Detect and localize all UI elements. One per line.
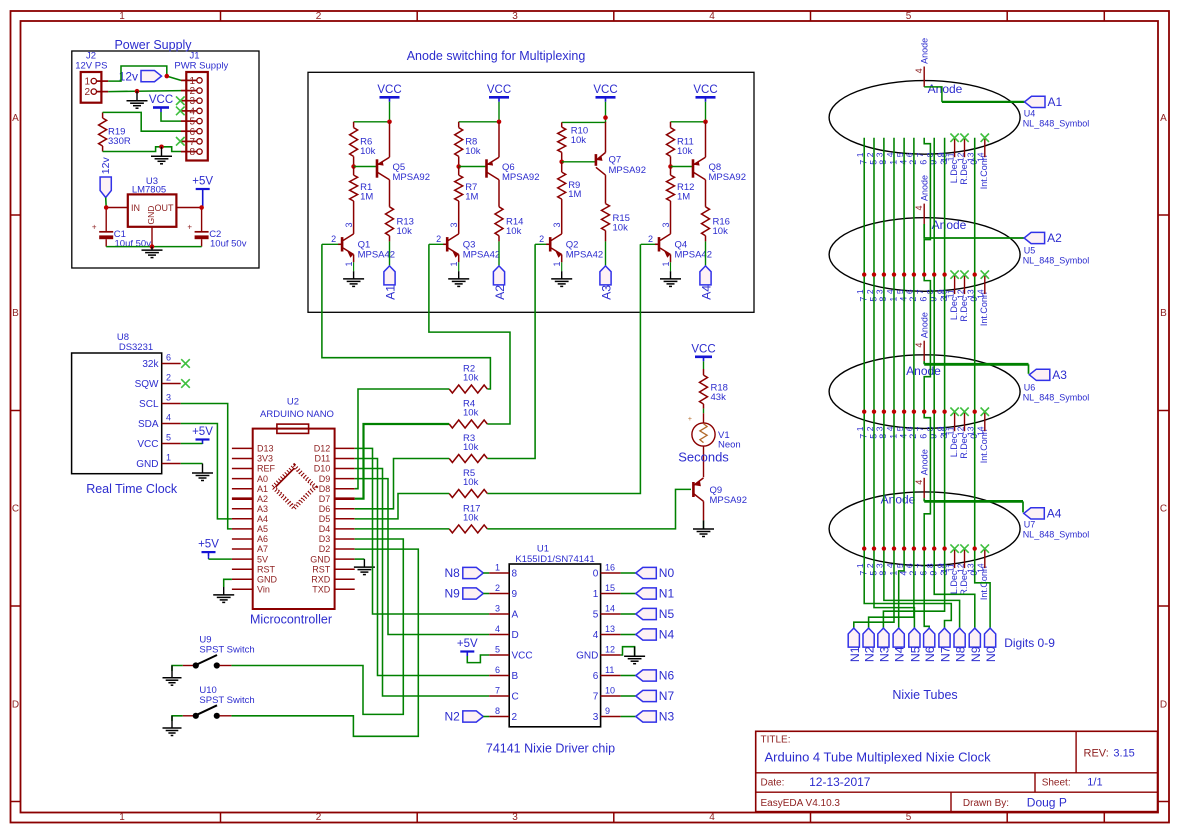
wire digit net col2 to N5 (874, 138, 914, 628)
resistor R11 10k (667, 122, 694, 167)
svg-text:A2: A2 (493, 285, 507, 300)
svg-text:A4: A4 (257, 514, 268, 524)
svg-text:1: 1 (119, 11, 125, 22)
no-connect pins of U7 (L.Dec R.Dec Int.Conn) (950, 544, 989, 568)
svg-text:PWR Supply: PWR Supply (174, 61, 228, 72)
svg-text:N1: N1 (659, 587, 675, 601)
svg-text:D13: D13 (257, 444, 274, 454)
svg-text:5: 5 (906, 11, 912, 22)
svg-text:R.Dec: R.Dec (959, 296, 969, 322)
svg-text:7: 7 (915, 289, 925, 294)
svg-text:Power Supply: Power Supply (114, 38, 192, 52)
svg-text:N2: N2 (863, 646, 877, 662)
svg-text:IN: IN (131, 203, 140, 213)
svg-text:C: C (1160, 504, 1167, 515)
svg-text:VCC: VCC (377, 84, 401, 96)
wire J2 pin1 to J1 pin1 (108, 66, 181, 81)
wire R18 to neon V1 (703, 409, 705, 414)
wire D11 to 74141 B (355, 459, 490, 676)
ground (Q3 emitter) (448, 271, 469, 286)
wire D8 to R2 (355, 389, 450, 489)
svg-text:2: 2 (539, 234, 544, 244)
resistor R19 330R (99, 112, 131, 151)
wire Arduino left GND to ground (224, 579, 232, 587)
svg-text:D6: D6 (319, 504, 331, 514)
svg-text:MPSA42: MPSA42 (566, 250, 604, 261)
svg-text:RXD: RXD (311, 574, 331, 584)
svg-text:0: 0 (593, 569, 599, 580)
nixie tube U4 NL_848_Symbol (ellipse) (829, 81, 1020, 155)
anode pin of U4 (914, 38, 930, 87)
resistor R-lower 1M (Q2) (558, 162, 582, 234)
svg-text:2: 2 (316, 812, 322, 823)
net flag N9 (74141 pin2) (444, 587, 489, 601)
svg-text:NL_848_Symbol: NL_848_Symbol (1023, 118, 1090, 128)
resistor R10 10k (558, 122, 588, 161)
wire Q1 base to R2 (322, 244, 491, 389)
svg-text:10k: 10k (571, 135, 587, 146)
wire digit net col6 to N2 (869, 138, 914, 628)
connector J2 12V PS (75, 51, 108, 103)
svg-text:A3: A3 (257, 504, 268, 514)
wire anode of U4 to A1 flag (924, 87, 1024, 102)
ground rail under regulator (106, 246, 201, 248)
power symbol VCC (A4 column) (693, 84, 717, 102)
svg-text:A2: A2 (257, 494, 268, 504)
svg-text:330R: 330R (108, 136, 131, 147)
net flag N0 (digit) (984, 628, 998, 662)
svg-text:13: 13 (605, 624, 615, 634)
resistor R-lower 1M (Q1) (350, 167, 374, 234)
svg-text:6: 6 (166, 353, 171, 363)
resistor R17 10k (449, 503, 487, 533)
wire D6 to R3 (355, 459, 450, 509)
junction VCC node A1 column (387, 120, 392, 125)
svg-text:NL_848_Symbol: NL_848_Symbol (1023, 393, 1090, 403)
svg-text:MPSA92: MPSA92 (609, 165, 647, 176)
transistor Q9 MPSA92 (PNP) (693, 478, 747, 521)
net flag A3 (anode column) (600, 266, 614, 300)
junction at 12v flag (165, 74, 170, 79)
ground (U8 GND) (192, 464, 213, 481)
svg-text:6: 6 (593, 671, 599, 682)
junction dots on tube U6 pins (862, 410, 977, 414)
svg-text:+5V: +5V (457, 638, 478, 650)
ground (74141 GND) (624, 647, 645, 664)
svg-text:4: 4 (166, 413, 171, 423)
net flag N7 (digit) (939, 628, 953, 662)
svg-text:12-13-2017: 12-13-2017 (809, 775, 871, 789)
svg-text:16: 16 (605, 563, 615, 573)
svg-text:1: 1 (449, 261, 459, 266)
svg-text:ARDUINO NANO: ARDUINO NANO (260, 409, 334, 420)
svg-text:Digits 0-9: Digits 0-9 (1004, 636, 1055, 650)
wire D7 to R4 (bold) (355, 424, 450, 499)
wire digit net col7 (with anode-pin jogs) to N6 (924, 138, 930, 628)
net flag N9 (digit) (969, 628, 983, 662)
svg-text:2: 2 (495, 583, 500, 593)
resistor R13 10k (386, 207, 414, 242)
svg-text:R.Dec: R.Dec (959, 159, 969, 185)
svg-text:A4: A4 (1047, 507, 1062, 521)
svg-text:10k: 10k (506, 226, 522, 237)
wire Q2 emitter to ground (561, 262, 563, 271)
power symbol +5V (U8 VCC) (192, 426, 213, 444)
svg-text:2: 2 (316, 11, 322, 22)
label Seconds (678, 450, 729, 465)
wire VCC to Q5 emitter (354, 102, 390, 122)
svg-text:N5: N5 (659, 607, 675, 621)
junction dots on tube U5 pins (862, 272, 977, 276)
svg-text:3: 3 (512, 812, 518, 823)
wire +5V to OUT (202, 194, 204, 208)
wire D3 to switch U9 (231, 539, 403, 714)
svg-text:Anode: Anode (928, 82, 963, 96)
svg-text:N7: N7 (939, 646, 953, 662)
svg-text:4: 4 (709, 812, 715, 823)
svg-text:VCC: VCC (487, 84, 511, 96)
svg-text:A6: A6 (257, 534, 268, 544)
svg-text:N6: N6 (923, 646, 937, 662)
svg-text:B: B (12, 308, 19, 319)
svg-text:3.15: 3.15 (1113, 748, 1134, 760)
svg-text:3: 3 (166, 393, 171, 403)
svg-text:10uf 50v: 10uf 50v (115, 238, 152, 249)
svg-text:7: 7 (495, 686, 500, 696)
label U7 NL_848_Symbol (1023, 520, 1090, 540)
svg-text:A5: A5 (257, 524, 268, 534)
wire 74141 GND jog to ground (621, 647, 635, 656)
svg-text:2: 2 (84, 87, 90, 98)
svg-text:1M: 1M (360, 192, 373, 203)
svg-text:A0: A0 (257, 474, 268, 484)
anode pin of U5 (914, 175, 930, 224)
resistor R-lower 1M (Q4) (667, 167, 695, 234)
transistor Q4 MPSA42 (NPN) (641, 222, 712, 266)
svg-text:2: 2 (512, 712, 518, 723)
pin numbers and cathode names of U7 (855, 563, 989, 600)
svg-text:Anode switching for Multiplexi: Anode switching for Multiplexing (407, 49, 586, 63)
svg-text:LM7805: LM7805 (132, 184, 166, 195)
svg-text:SPST Switch: SPST Switch (199, 695, 254, 706)
net flag N8 (digit) (954, 628, 968, 662)
svg-text:+: + (688, 416, 692, 423)
wire digit net col13 to N0 (975, 138, 990, 628)
svg-text:A3: A3 (600, 285, 614, 300)
svg-text:U6: U6 (1024, 383, 1036, 393)
net flag A4 (anode column) (700, 266, 714, 300)
wire U8 SCL to Arduino A5 (181, 404, 232, 529)
net flag A2 (tube anode) (1024, 231, 1062, 245)
svg-text:U4: U4 (1024, 108, 1036, 118)
svg-text:74141 Nixie Driver chip: 74141 Nixie Driver chip (486, 742, 615, 756)
svg-text:Arduino 4 Tube Multiplexed Nix: Arduino 4 Tube Multiplexed Nixie Clock (765, 750, 992, 765)
svg-text:Real Time Clock: Real Time Clock (86, 482, 178, 496)
power symbol VCC (A2 column) (487, 84, 511, 102)
svg-text:N2: N2 (444, 710, 460, 724)
svg-text:12v: 12v (100, 157, 112, 175)
svg-text:5V: 5V (257, 554, 268, 564)
transistor Q3 MPSA42 (NPN) (429, 222, 500, 266)
net flag N6 (digit) (923, 628, 937, 662)
net flag N2 (74141 pin8) (444, 710, 489, 724)
wire digit net col1 to N7 (864, 138, 951, 628)
wire Q1 emitter to ground (353, 262, 355, 271)
svg-text:6: 6 (919, 297, 929, 302)
resistor R2 10k (449, 364, 487, 394)
nixie tube U6 NL_848_Symbol (ellipse) (829, 355, 1020, 429)
svg-text:DS3231: DS3231 (119, 342, 153, 353)
nixie tube U5 NL_848_Symbol (ellipse) (829, 218, 1020, 292)
net flag N0 (74141 output) (621, 566, 675, 580)
power symbol +5V (Arduino 5V pin) (198, 539, 219, 557)
net flag N2 (digit) (863, 628, 877, 662)
svg-text:N0: N0 (984, 646, 998, 662)
svg-text:4: 4 (914, 68, 924, 73)
resistor R-lower 1M (Q3) (455, 167, 479, 234)
svg-text:VCC: VCC (691, 343, 715, 355)
wire anode of U7 to A4 flag (924, 498, 1023, 512)
svg-text:C: C (512, 692, 519, 703)
svg-text:Vin: Vin (257, 585, 270, 595)
no-connect pins of U5 (L.Dec R.Dec Int.Conn) (950, 270, 989, 294)
svg-text:SCL: SCL (139, 399, 159, 410)
net flag N4 (digit) (893, 628, 907, 662)
voltage regulator U3 LM7805 (106, 176, 201, 247)
svg-text:D9: D9 (319, 474, 331, 484)
wire J2 pin2 to J1 pin2 (108, 91, 181, 92)
svg-text:A2: A2 (1047, 231, 1062, 245)
svg-text:10k: 10k (713, 226, 729, 237)
svg-text:MPSA92: MPSA92 (710, 495, 748, 506)
ground below regulator (142, 247, 163, 258)
wire U8 SDA to Arduino A4 (181, 424, 232, 519)
wire digit net col9 to N3 (883, 138, 944, 628)
svg-text:4: 4 (593, 630, 599, 641)
svg-text:3: 3 (552, 222, 562, 227)
anode pin of U7 (914, 449, 930, 498)
svg-text:Anode: Anode (920, 38, 930, 64)
svg-text:D12: D12 (314, 444, 331, 454)
svg-text:N3: N3 (659, 710, 675, 724)
svg-text:GND: GND (576, 651, 598, 662)
anode switching section box (308, 49, 754, 312)
wire D4 to R17 (355, 528, 450, 530)
resistor R15 10k (602, 204, 630, 242)
wire +5V jog to 74141 VCC (467, 655, 489, 663)
net flag A4 (tube anode) (1024, 507, 1062, 521)
svg-text:10k: 10k (463, 373, 479, 384)
ground (Q1 emitter) (343, 271, 364, 286)
no-connect X on J1 pin 3 (176, 96, 185, 105)
wire D5 to R5 (355, 494, 450, 519)
svg-text:Int.Conn: Int.Conn (979, 292, 989, 326)
svg-text:4: 4 (914, 343, 924, 348)
wire anode of U5 to A2 flag (924, 224, 1024, 238)
ground (Arduino left GND) (213, 587, 234, 602)
ground (Q4 emitter) (660, 271, 681, 286)
svg-text:N6: N6 (659, 669, 675, 683)
svg-text:D8: D8 (319, 484, 331, 494)
junction Q5 base node (351, 164, 356, 169)
svg-text:Anode: Anode (920, 175, 930, 201)
svg-text:+5V: +5V (192, 426, 213, 438)
IC U2 ARDUINO NANO microcontroller (232, 397, 355, 627)
svg-text:1: 1 (119, 812, 125, 823)
svg-text:NL_848_Symbol: NL_848_Symbol (1023, 530, 1090, 540)
wire Q2 base to R3 (487, 244, 535, 458)
svg-text:A: A (1160, 113, 1167, 124)
svg-text:4: 4 (495, 624, 500, 634)
junction VCC node A2 column (497, 120, 502, 125)
svg-text:3: 3 (495, 604, 500, 614)
svg-text:RST: RST (257, 564, 276, 574)
svg-text:4: 4 (914, 480, 924, 485)
svg-text:MPSA92: MPSA92 (709, 172, 747, 183)
anode pin of U6 (914, 312, 930, 361)
svg-text:VCC: VCC (149, 94, 173, 106)
wire Arduino right GND to ground (355, 558, 365, 560)
junction VCC node A3 column (603, 115, 608, 120)
transistor Q5 MPSA92 (PNP) (354, 122, 430, 207)
wire VCC to Q8 emitter (671, 102, 706, 122)
svg-text:R.Dec: R.Dec (959, 570, 969, 596)
net flag N1 (74141 output) (621, 587, 675, 601)
wire D12 to 74141 A (355, 448, 490, 614)
IC U1 K155ID1/SN74141 nixie driver (486, 544, 621, 756)
svg-text:5: 5 (166, 433, 171, 443)
svg-text:REV:: REV: (1084, 748, 1109, 760)
wire D10 to 74141 C (355, 469, 490, 697)
svg-text:43k: 43k (711, 392, 727, 403)
wire VCC to Q6 emitter (459, 102, 499, 122)
wire +5V to U8 VCC (181, 443, 203, 446)
svg-text:32k: 32k (142, 359, 159, 370)
svg-text:+5V: +5V (198, 539, 219, 551)
svg-text:Anode: Anode (932, 218, 967, 232)
svg-text:7: 7 (915, 426, 925, 431)
wire R19 top to J1 pin6 (103, 112, 181, 131)
svg-text:A1: A1 (1048, 95, 1063, 109)
svg-text:GND: GND (257, 574, 278, 584)
svg-text:+5V: +5V (192, 176, 213, 188)
wire R16 to A4 flag (705, 241, 707, 266)
no-connect X on J1 pin 7 (176, 137, 185, 146)
svg-text:2: 2 (436, 234, 441, 244)
svg-text:N3: N3 (877, 646, 891, 662)
svg-text:EasyEDA V4.10.3: EasyEDA V4.10.3 (761, 798, 841, 809)
pin numbers and cathode names of U4 (855, 152, 989, 189)
net flag A1 (tube anode) (1025, 95, 1063, 109)
svg-text:10k: 10k (465, 146, 481, 157)
label Nixie Tubes (892, 688, 957, 702)
svg-text:Microcontroller: Microcontroller (250, 613, 332, 627)
resistor R6 10k (350, 122, 376, 167)
resistor R4 10k (449, 399, 487, 429)
resistor R5 10k (449, 468, 487, 498)
svg-text:Anode: Anode (881, 493, 916, 507)
svg-text:12V PS: 12V PS (75, 61, 107, 72)
wire digit net col5 to N4 (899, 138, 904, 628)
svg-text:10: 10 (605, 686, 615, 696)
svg-text:OUT: OUT (155, 203, 175, 213)
wire U8 GND to ground (181, 463, 203, 465)
svg-text:10k: 10k (463, 512, 479, 523)
svg-text:D7: D7 (319, 494, 331, 504)
svg-text:4: 4 (709, 11, 715, 22)
svg-text:Int.Conn: Int.Conn (979, 155, 989, 189)
svg-text:A: A (512, 610, 519, 621)
transistor Q8 MPSA92 (PNP) (671, 122, 747, 207)
svg-text:D5: D5 (319, 514, 331, 524)
svg-text:+: + (92, 223, 97, 232)
svg-text:1: 1 (495, 563, 500, 573)
svg-text:VCC: VCC (593, 84, 617, 96)
wire R13 to A1 flag (389, 241, 391, 266)
svg-text:NL_848_Symbol: NL_848_Symbol (1023, 256, 1090, 266)
pin numbers and cathode names of U5 (855, 289, 989, 326)
svg-text:A1: A1 (384, 285, 398, 300)
svg-text:N0: N0 (659, 566, 675, 580)
ground (Q2 emitter) (551, 271, 572, 286)
svg-text:N7: N7 (659, 689, 675, 703)
wire Q4 base to R5 (487, 244, 640, 493)
connector J1 PWR Supply (174, 51, 228, 161)
svg-text:MPSA92: MPSA92 (502, 172, 540, 183)
svg-text:GND: GND (136, 459, 158, 470)
svg-text:5: 5 (906, 812, 912, 823)
svg-text:A3: A3 (1052, 368, 1067, 382)
svg-text:SQW: SQW (135, 379, 159, 390)
junction on pin2 wire (135, 89, 140, 94)
svg-text:14: 14 (605, 604, 615, 614)
wire R14 to A2 flag (498, 241, 500, 266)
ground below pin2 wire (127, 91, 148, 108)
no-connect pins of U6 (L.Dec R.Dec Int.Conn) (950, 408, 989, 432)
net flag A3 (tube anode) (1029, 368, 1067, 382)
ground (Q9) (693, 520, 714, 536)
power symbol VCC (seconds) (691, 343, 715, 361)
svg-text:6: 6 (919, 434, 929, 439)
net flag N4 (74141 output) (621, 628, 675, 642)
no-connect X on U8 SQW (181, 379, 190, 388)
wire digit net col8 to N9 (934, 138, 975, 628)
svg-text:K155ID1/SN74141: K155ID1/SN74141 (515, 554, 594, 565)
svg-text:GND: GND (310, 554, 331, 564)
net flag N1 (digit) (848, 628, 862, 662)
svg-text:R.Dec: R.Dec (959, 433, 969, 459)
svg-text:2: 2 (166, 373, 171, 383)
svg-text:D4: D4 (319, 524, 331, 534)
svg-text:3V3: 3V3 (257, 454, 273, 464)
net flag N3 (digit) (877, 628, 891, 662)
IC U8 DS3231 Real Time Clock (72, 332, 181, 496)
svg-text:15: 15 (605, 583, 615, 593)
svg-text:10k: 10k (463, 477, 479, 488)
wire Q9 collector to ground (703, 520, 705, 529)
capacitor C1 10uf 50v (92, 208, 151, 250)
svg-text:7: 7 (593, 692, 599, 703)
svg-text:Q7: Q7 (609, 155, 622, 166)
wire VCC to Q7 emitter (562, 102, 606, 123)
wire digit net col3 to N8 (884, 138, 960, 628)
wire 12v flag to regulator input (105, 198, 108, 208)
net flag A2 (anode column) (493, 266, 507, 300)
net flag N8 (74141 pin1) (444, 566, 489, 580)
svg-text:N9: N9 (969, 646, 983, 662)
svg-text:SPST Switch: SPST Switch (199, 645, 254, 656)
transistor Q7 MPSA92 (PNP) (562, 122, 646, 204)
